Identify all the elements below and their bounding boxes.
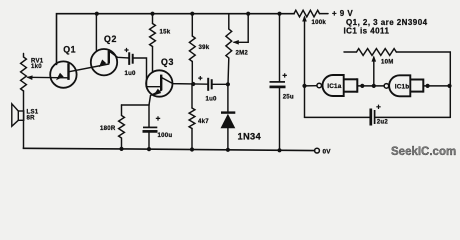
svg-text:39k: 39k [199,44,210,51]
wire cap out to diode node [212,83,228,85]
svg-text:Q1, 2, 3 are 2N3904: Q1, 2, 3 are 2N3904 [346,18,428,27]
svg-text:Q1: Q1 [63,44,76,54]
IC1b input ties [410,79,423,93]
svg-text:25u: 25u [283,94,294,101]
svg-text:100u: 100u [158,132,173,139]
wire Q3 collector output [162,78,209,85]
wire 100k right lead [320,13,329,15]
transistor Q2 [91,49,117,75]
svg-text:IC1a: IC1a [327,83,341,90]
wire 180R to emitter junction [122,104,150,106]
resistor 10M [344,51,357,53]
resistor 39k [191,14,193,36]
wire 100k wiper down to gates [304,18,306,118]
capacitor 2u2 [371,109,375,126]
svg-text:180R: 180R [100,125,116,132]
resistor 4k7 [191,84,193,108]
wire IC1b inputs to feedback [423,85,450,87]
wire Q1 base to Q2 emitter [69,64,109,72]
svg-text:Q3: Q3 [161,57,174,67]
svg-text:1u0: 1u0 [125,70,137,77]
svg-text:SeekIC.com: SeekIC.com [391,146,456,158]
svg-text:15k: 15k [160,29,171,36]
junction dots [95,12,99,16]
potentiometer 100k [294,10,320,17]
NAND gate IC1a [323,75,344,96]
trimmer 2M2 [228,14,230,29]
wire RV1 wiper to Q1 emitter [28,76,69,79]
capacitor 25u [279,14,281,82]
svg-text:2u2: 2u2 [377,119,389,126]
capacitor 1u0 coupling Q2-Q3 [129,52,133,65]
IC1a input ties [344,78,358,92]
svg-text:0V: 0V [323,149,332,156]
svg-text:100k: 100k [312,19,327,26]
transistor Q1 [50,61,76,87]
capacitor 1u0 output [208,78,212,91]
potentiometer RV1 [21,54,27,92]
wire RV1 bottom to speaker and rail [23,91,25,148]
IC1a output bubble [317,83,322,88]
svg-text:4k7: 4k7 [198,118,209,125]
wire cap to Q3 base [133,58,147,87]
svg-text:Q2: Q2 [104,34,117,44]
terminal 0V [315,148,320,153]
IC1b output bubble [384,84,389,89]
NAND gate IC1b [389,75,410,96]
svg-text:IC1b: IC1b [395,83,409,90]
wire bottom 0V rail [24,148,315,150]
svg-text:8R: 8R [27,115,36,122]
wire Q2 output to coupling cap [109,51,129,58]
svg-text:1k0: 1k0 [31,63,42,70]
wire IC1a inputs to node [357,85,384,87]
wire Q3 emitter [149,90,161,105]
svg-text:1u0: 1u0 [206,95,218,102]
wire 10M wiper [373,58,375,86]
svg-text:2M2: 2M2 [236,50,249,57]
svg-text:IC1 is 4011: IC1 is 4011 [344,27,390,36]
wire Q2 collector to top rail [95,14,97,51]
capacitor 100u [148,105,150,127]
wire bottom feedback loop [305,116,370,118]
wire top supply rail [57,14,295,65]
resistor 180R [119,105,125,149]
wire IC1a output to node [305,85,317,87]
speaker LS1 [12,104,24,127]
wire Q3 base lead [147,86,162,88]
svg-text:1N34: 1N34 [238,131,262,141]
wire 2M2 wiper to rail [234,14,248,43]
svg-text:10M: 10M [381,59,394,66]
Q1 emitter arrow [56,73,64,81]
transistor Q3 [146,70,172,96]
wire 10M to right feedback [396,52,450,117]
resistor 15k [152,14,154,24]
diode 1N34 [227,84,229,112]
